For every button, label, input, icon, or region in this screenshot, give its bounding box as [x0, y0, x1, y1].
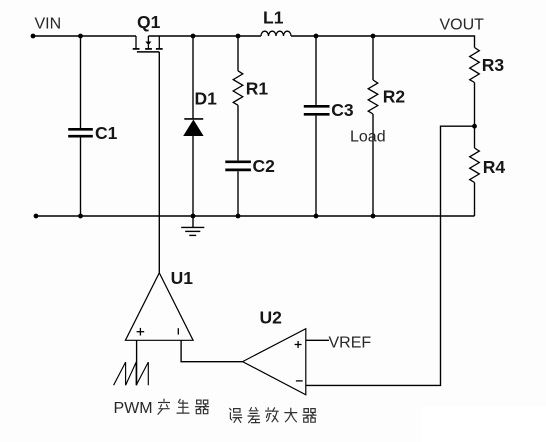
node C3 bottom junction [314, 214, 319, 219]
wire R3 to R4 with feedback node [474, 83, 476, 149]
U2 plus input mark [295, 341, 302, 348]
node R2 top junction [371, 34, 376, 39]
wire R1 to C2 [237, 105, 239, 160]
svg-text:VOUT: VOUT [440, 16, 485, 33]
label 产生器 hand-drawn hanzi [158, 399, 209, 414]
wire L1 to VOUT corner down to R3 [291, 36, 475, 48]
hanzi 差 [248, 408, 260, 423]
wire R2 bottom [372, 114, 374, 216]
wire C3 branch upper [315, 36, 317, 105]
node R2 bottom junction [371, 214, 376, 219]
svg-text:R3: R3 [482, 55, 505, 75]
capacitor C3 [304, 106, 330, 114]
wire top rail VIN to Q1 source [33, 35, 136, 37]
svg-text:U1: U1 [171, 268, 194, 288]
node ground-rail left terminal dot [34, 214, 39, 219]
resistor R1 [233, 71, 243, 105]
svg-text:R1: R1 [246, 78, 269, 98]
capacitor C2 [225, 162, 251, 170]
label 误差放大器 hand-drawn hanzi [230, 408, 316, 423]
wire top rail Q1 drain to L1 [148, 35, 261, 37]
svg-text:C2: C2 [253, 156, 276, 176]
wire C1 branch upper [80, 36, 82, 128]
svg-text:R2: R2 [383, 86, 406, 106]
diode D1 [183, 119, 203, 136]
wire bottom ground rail [36, 215, 475, 217]
hanzi 放 [266, 408, 279, 422]
node R1 top junction [236, 34, 241, 39]
hanzi 产 [158, 399, 170, 414]
hanzi 误 [230, 408, 242, 422]
U1 minus input mark (vertical tick) [177, 328, 179, 334]
svg-text:R4: R4 [483, 157, 506, 177]
hanzi 生 [177, 399, 189, 413]
inductor L1 [261, 31, 291, 36]
wire R2 top [372, 36, 374, 80]
svg-text:Load: Load [350, 129, 386, 146]
svg-text:U2: U2 [260, 308, 283, 328]
op-amp U1 (PWM comparator, triangle pointing up) [125, 273, 193, 341]
wire Q1 gate down to U1 [158, 52, 160, 273]
node D1 top junction [191, 34, 196, 39]
resistor R4 [470, 148, 480, 182]
svg-text:VIN: VIN [35, 16, 62, 33]
op-amp U2 (error amplifier, triangle pointing left) [243, 329, 306, 395]
wire R1 top [237, 36, 239, 71]
node D1/ground junction [191, 214, 196, 219]
wire R4 to bottom rail [474, 183, 476, 217]
hanzi 器 [196, 400, 209, 414]
capacitor C1 [68, 129, 93, 136]
svg-text:L1: L1 [263, 8, 284, 28]
wire C1 branch lower [80, 138, 82, 217]
hanzi 器 [303, 409, 316, 423]
wire C3 branch lower [315, 116, 317, 216]
node C2 bottom junction [236, 214, 241, 219]
resistor R3 [470, 48, 480, 83]
U1 plus input mark [137, 328, 145, 336]
node C1 top junction [78, 34, 83, 39]
wire D1 branch lower [192, 136, 194, 216]
svg-text:PWM: PWM [114, 400, 153, 417]
wire U1 inverting lead to U2 output [181, 340, 243, 361]
ground [181, 216, 204, 235]
wire D1 branch upper [192, 36, 194, 119]
sawtooth PWM waveform symbol [114, 362, 149, 385]
U2 minus input mark [296, 380, 303, 382]
svg-text:C1: C1 [95, 123, 118, 143]
transistor Q1 (P-MOSFET) [133, 36, 163, 52]
node feedback junction between R3 and R4 [472, 124, 477, 129]
node C1 bottom junction [78, 214, 83, 219]
wire U1 noninverting lead down to sawtooth [136, 340, 138, 385]
node VIN terminal dot [31, 34, 36, 39]
svg-text:D1: D1 [195, 89, 218, 109]
white patch bottom-right [421, 406, 546, 442]
wire VREF stub [306, 339, 329, 341]
svg-text:Q1: Q1 [137, 12, 161, 32]
hanzi 大 [285, 408, 297, 422]
svg-text:C3: C3 [331, 100, 354, 120]
wire feedback node to U2 inverting input [306, 126, 475, 385]
resistor R2 [368, 80, 378, 114]
wire C2 to rail [237, 171, 239, 216]
node C3 top junction [314, 34, 319, 39]
svg-text:VREF: VREF [329, 335, 372, 352]
